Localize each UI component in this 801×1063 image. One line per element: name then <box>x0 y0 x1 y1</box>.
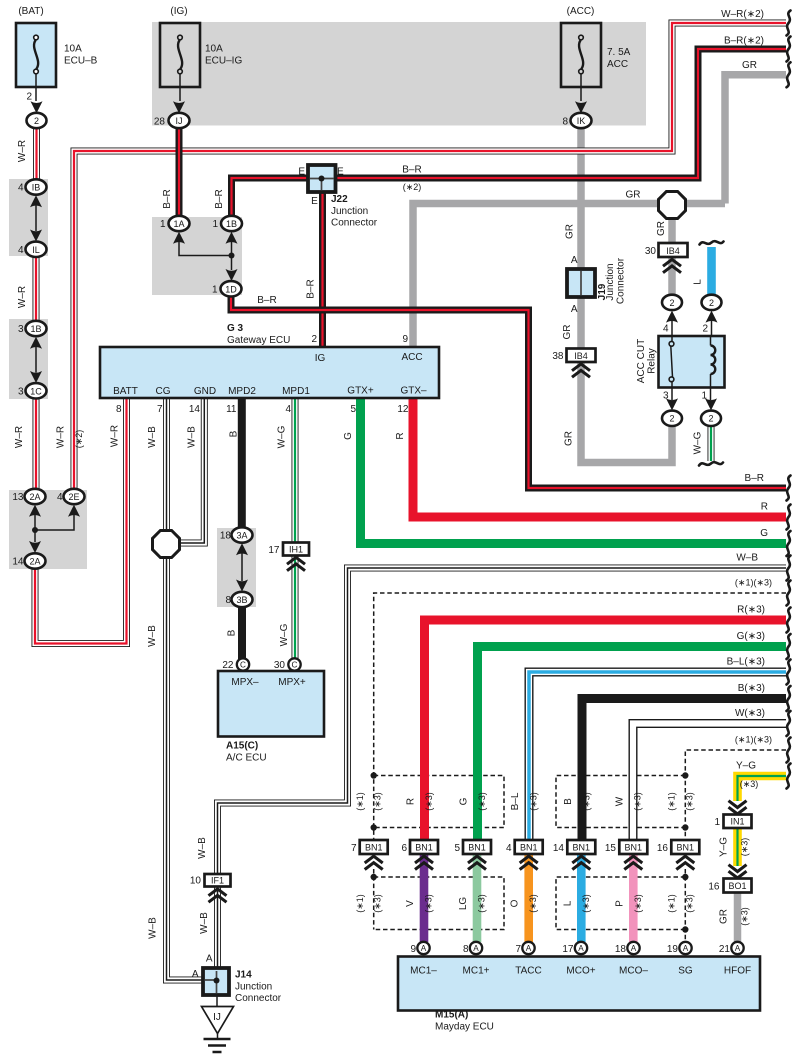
connector rect IF1 pin 10 <box>205 874 231 887</box>
wire V from 6-BN1 to MC1- <box>420 854 429 942</box>
connector oval 1B pin 1 <box>221 216 242 231</box>
svg-text:2: 2 <box>702 324 708 335</box>
svg-text:(IG): (IG) <box>170 6 187 17</box>
chevron under IH1 <box>287 557 305 570</box>
svg-text:A: A <box>192 969 199 980</box>
svg-text:G: G <box>459 797 470 805</box>
gateway ECU G3 box <box>100 347 439 398</box>
label C pin 30 <box>274 660 298 671</box>
break squiggle G(*3) bus <box>787 634 791 659</box>
svg-text:W–B: W–B <box>197 837 208 859</box>
arrow into oval IJ <box>173 101 185 113</box>
wire W-R 1C to 2A <box>33 398 40 490</box>
svg-text:1A: 1A <box>173 219 184 229</box>
svg-text:30: 30 <box>274 660 286 671</box>
svg-text:8: 8 <box>463 944 469 955</box>
break squiggles right edge top group <box>787 11 791 36</box>
svg-text:W–B: W–B <box>199 912 210 934</box>
arrow up into 3A <box>236 543 248 555</box>
junction connector J14 <box>203 968 229 995</box>
svg-text:3: 3 <box>663 391 669 402</box>
wire links 2A/2E join <box>35 515 74 543</box>
svg-text:Connector: Connector <box>235 993 282 1004</box>
dashed variant box lower-right <box>556 877 685 930</box>
wire GR from ACC fuse IK down through J19 to IB4 <box>577 128 585 349</box>
chevron under 30-IB4 <box>663 259 681 272</box>
arrow down into bottom oval 2 (pin 1) <box>705 398 717 410</box>
label 3A connector <box>220 531 248 542</box>
fuse (ACC) 7.5A <box>561 23 601 101</box>
connector rect BN1 pin 6 <box>410 840 438 854</box>
svg-text:A: A <box>631 944 637 953</box>
svg-text:B–R(∗2): B–R(∗2) <box>724 36 764 47</box>
svg-text:MPD1: MPD1 <box>282 386 310 397</box>
svg-text:(∗3): (∗3) <box>477 792 487 811</box>
chevron under 6-BN1 <box>415 856 433 869</box>
label 2A connector pin14 <box>12 557 40 568</box>
svg-text:19: 19 <box>667 944 679 955</box>
dashed wire (*1)(*3) horizontal bus <box>374 593 786 840</box>
chevron down above BO1 <box>729 865 747 878</box>
svg-text:BN1: BN1 <box>468 843 486 853</box>
svg-text:(∗3): (∗3) <box>685 894 695 913</box>
labels lower P column <box>614 894 643 913</box>
svg-text:MC1+: MC1+ <box>463 966 490 977</box>
svg-text:C: C <box>240 661 246 670</box>
junction dot dashed left col <box>371 824 377 830</box>
connector rect BN1 pin 16 <box>671 840 699 854</box>
svg-text:B–R: B–R <box>402 165 421 176</box>
svg-text:2: 2 <box>34 116 39 126</box>
svg-text:(ACC): (ACC) <box>567 6 595 17</box>
break squiggle B(*3) bus <box>787 686 791 711</box>
svg-text:W–B: W–B <box>148 917 159 939</box>
svg-text:HFOF: HFOF <box>724 966 751 977</box>
connector oval 1B pin 3 <box>26 321 47 336</box>
break squiggle W-G wire bottom <box>699 462 723 465</box>
wire GR top right with break <box>725 75 786 204</box>
svg-text:2A: 2A <box>29 557 40 567</box>
svg-text:G(∗3): G(∗3) <box>737 631 765 642</box>
connector rect IB4 pin 38 <box>567 349 596 363</box>
svg-text:G 3: G 3 <box>227 323 244 334</box>
svg-text:IF1: IF1 <box>211 876 224 886</box>
svg-text:W–G: W–G <box>279 623 290 646</box>
connector rect BO1 pin 16 <box>724 879 752 893</box>
svg-text:10: 10 <box>190 876 202 887</box>
gray panel behind 1A/1B/1D connectors <box>152 217 242 295</box>
svg-text:MCO–: MCO– <box>619 966 648 977</box>
svg-text:CG: CG <box>156 386 171 397</box>
svg-text:(∗3): (∗3) <box>740 838 750 857</box>
connector oval IJ pin 28 <box>169 113 190 128</box>
label 1B connector <box>212 219 237 230</box>
svg-text:A: A <box>578 944 584 953</box>
junction dot dashed right col <box>682 824 688 830</box>
svg-text:(∗3): (∗3) <box>373 792 383 811</box>
labels lower O column <box>510 894 539 913</box>
break squiggle B-L(*3) bus <box>787 660 791 685</box>
svg-text:4: 4 <box>18 245 24 256</box>
connector oval 2A pin 13 <box>25 489 46 504</box>
break squiggle R bus <box>787 505 791 530</box>
svg-text:A: A <box>735 944 741 953</box>
connector oval 2 below relay pin 3 <box>662 411 682 426</box>
wire W-G from relay oval 2 down to break <box>708 426 715 461</box>
svg-text:38: 38 <box>552 351 564 362</box>
octagon junction on GR <box>659 192 686 219</box>
fuse (BAT) 10A ECU-B <box>16 23 56 101</box>
connector oval 3B pin 8 <box>232 592 253 607</box>
wire B-L(*3) bus to 4-BN1 <box>529 672 786 840</box>
svg-text:V: V <box>405 900 416 907</box>
wire LG from 5-BN1 to MC1+ <box>473 854 482 942</box>
svg-text:BN1: BN1 <box>415 843 433 853</box>
labels BN1 row numbers and text <box>351 843 694 854</box>
svg-text:(∗3): (∗3) <box>373 894 383 913</box>
label gateway bottom pin names <box>113 386 427 398</box>
svg-text:1: 1 <box>701 391 707 402</box>
svg-text:6: 6 <box>401 843 407 854</box>
wire triangle to ground <box>217 1034 219 1040</box>
arrow into oval 2 <box>31 101 43 113</box>
svg-text:15: 15 <box>605 843 617 854</box>
svg-text:5: 5 <box>454 843 460 854</box>
svg-text:B–R: B–R <box>214 189 225 208</box>
svg-text:2: 2 <box>311 334 317 345</box>
arrow up into IB <box>30 195 42 207</box>
svg-text:3B: 3B <box>236 595 247 605</box>
label gateway bottom pin numbers <box>116 404 409 415</box>
svg-text:B: B <box>563 798 574 805</box>
chevron under 7-BN1 <box>365 856 383 869</box>
wire P from 15-BN1 to MCO- <box>629 854 638 942</box>
svg-text:8: 8 <box>225 595 231 606</box>
label G3 gateway ECU <box>227 323 290 346</box>
wire W-B from gateway CG pin down through octagon to J14 <box>167 398 204 980</box>
wire GR from oval 2 down-left-up to 38-IB4 <box>581 363 672 463</box>
connector oval 2 below relay pin 1 <box>701 411 721 426</box>
label oval 2 texts right section <box>669 298 714 424</box>
connector oval IL pin 4 <box>26 242 47 257</box>
wire L from 14-BN1 to MCO+ <box>577 854 586 942</box>
svg-text:Connector: Connector <box>616 257 627 304</box>
break squiggle dashed bus 2 <box>787 738 791 763</box>
svg-text:ACC: ACC <box>401 352 422 363</box>
chevron under 38-IB4 <box>572 364 590 377</box>
connector oval 2E pin 4 <box>64 489 85 504</box>
svg-text:E: E <box>311 196 318 207</box>
wire B from gateway MPD2 pin to 3A <box>238 398 246 528</box>
svg-text:7: 7 <box>515 944 521 955</box>
wire Y-G from IN1 to BO1 <box>733 828 742 866</box>
label 1C connector <box>18 386 42 397</box>
wire W-R from (BAT) fuse to IB <box>33 128 40 180</box>
svg-text:BN1: BN1 <box>677 843 695 853</box>
svg-text:BN1: BN1 <box>520 843 538 853</box>
wire B from 3B down to A/C ECU MPX- <box>238 607 246 659</box>
svg-text:B(∗3): B(∗3) <box>738 683 765 694</box>
chevron under 4-BN1 <box>520 856 538 869</box>
ground symbol <box>204 1039 231 1052</box>
svg-text:IB: IB <box>32 183 41 193</box>
labels lower dashed box left column (*1)(*3) <box>355 894 383 913</box>
svg-text:16: 16 <box>708 882 720 893</box>
wire B-R(*2) from J22 right to top-right break <box>335 49 786 178</box>
svg-text:GR: GR <box>719 909 730 924</box>
junction dot dashed left col <box>371 772 377 778</box>
connector oval 3A pin 18 <box>232 527 253 542</box>
label J14 A pins <box>192 954 213 981</box>
connector circle A pin 9 MC1- <box>417 942 429 954</box>
svg-text:W: W <box>615 796 626 806</box>
svg-text:IL: IL <box>32 245 40 255</box>
label (ACC) fuse <box>562 6 630 127</box>
break squiggle G bus <box>787 531 791 556</box>
svg-text:R(∗3): R(∗3) <box>737 605 765 616</box>
gray panel behind IG and ACC fuses <box>152 22 646 126</box>
junction dot dashed right col <box>682 772 688 778</box>
svg-text:1: 1 <box>212 284 218 295</box>
svg-text:4: 4 <box>663 324 669 335</box>
label 2A connector pin13 <box>12 492 40 503</box>
label MPX pins <box>231 677 306 688</box>
svg-text:5: 5 <box>350 404 356 415</box>
svg-text:W–B: W–B <box>147 426 158 448</box>
ground triangle IJ <box>202 1007 234 1034</box>
svg-text:R: R <box>406 798 417 805</box>
svg-text:R: R <box>395 432 406 439</box>
labels lower L column <box>562 894 591 913</box>
svg-text:2: 2 <box>669 414 674 424</box>
svg-text:2: 2 <box>669 298 674 308</box>
wire pin4 to relay <box>671 321 673 338</box>
connector rect IN1 pin 1 <box>724 815 752 829</box>
connector oval 2 above relay coil pin 2 <box>702 295 722 310</box>
break squiggle L wire top <box>700 241 724 244</box>
svg-text:A: A <box>206 954 213 965</box>
label ACC CUT relay <box>636 339 658 383</box>
connector rect BN1 pin 7 <box>360 840 388 854</box>
labels M15 pin names <box>410 966 751 977</box>
svg-text:3: 3 <box>18 386 24 397</box>
svg-text:IK: IK <box>577 116 586 126</box>
wire GR octagon down to 30-IB4 and oval 2 <box>668 215 676 296</box>
arrow into oval IK <box>575 101 587 113</box>
svg-text:GR: GR <box>562 325 573 340</box>
labels M15 pin numbers and A circles <box>410 944 740 955</box>
svg-text:O: O <box>510 899 521 907</box>
svg-text:BN1: BN1 <box>365 843 383 853</box>
svg-text:W–R: W–R <box>110 425 121 447</box>
svg-text:Junction: Junction <box>331 206 368 217</box>
svg-text:17: 17 <box>268 545 280 556</box>
labels lower dashed box right column (*1)(*3) <box>667 894 695 913</box>
svg-text:(∗3): (∗3) <box>740 779 759 789</box>
chevron under 14-BN1 <box>572 856 590 869</box>
svg-text:G: G <box>760 528 768 539</box>
svg-text:A: A <box>421 944 427 953</box>
svg-text:W–G: W–G <box>693 431 704 454</box>
label A15(C) A/C ECU <box>226 741 267 764</box>
wire Y-G bus from break to IN1 <box>738 776 787 801</box>
wire J14 to IJ ground triangle <box>216 995 218 1007</box>
connector rect IH1 pin 17 <box>283 543 309 556</box>
svg-text:(∗1)(∗3): (∗1)(∗3) <box>735 578 772 588</box>
svg-text:Mayday ECU: Mayday ECU <box>435 1022 494 1033</box>
svg-text:B: B <box>229 430 240 437</box>
svg-text:2: 2 <box>709 298 714 308</box>
svg-text:W–R: W–R <box>17 286 28 308</box>
label M15(A) mayday ECU <box>435 1010 494 1033</box>
svg-text:17: 17 <box>562 944 574 955</box>
svg-text:2A: 2A <box>29 492 40 502</box>
wire B-R from 1B up and right through J22 <box>232 178 309 216</box>
svg-text:GR: GR <box>564 431 575 446</box>
svg-text:(∗3): (∗3) <box>633 894 643 913</box>
dashed variant box lower-left <box>374 877 504 930</box>
svg-text:18: 18 <box>615 944 627 955</box>
arrow down into 14-2A <box>29 541 41 553</box>
svg-text:A: A <box>526 944 532 953</box>
svg-text:B–R: B–R <box>257 295 276 306</box>
svg-text:9: 9 <box>402 334 408 345</box>
svg-text:M15(A): M15(A) <box>435 1010 468 1021</box>
label (BAT) fuse <box>18 6 97 126</box>
svg-text:(∗3): (∗3) <box>581 894 591 913</box>
labels lower LG column <box>458 894 487 913</box>
svg-text:W(∗3): W(∗3) <box>735 708 765 719</box>
svg-text:GND: GND <box>194 386 216 397</box>
connector oval 2 (BAT) <box>27 113 47 128</box>
arrow down into 1D <box>226 269 238 281</box>
svg-text:(∗3): (∗3) <box>582 792 592 811</box>
connector rect BN1 pin 15 <box>619 840 647 854</box>
dashed variant box upper-left <box>374 776 504 828</box>
labels upper dashed box left column (*1)(*3) <box>355 792 383 811</box>
svg-text:L: L <box>562 900 573 906</box>
wire O from 4-BN1 to TACC <box>524 854 533 942</box>
octagon junction on W-B CG wire <box>153 531 180 558</box>
wire W-B bus from break left and down to IF1 <box>218 568 787 874</box>
svg-text:ECU–IG: ECU–IG <box>205 56 242 67</box>
svg-text:GR: GR <box>565 224 576 239</box>
arrow up into 2A <box>29 505 41 517</box>
svg-text:1D: 1D <box>225 284 237 294</box>
svg-text:8: 8 <box>116 404 122 415</box>
label J22 junction connector <box>298 167 377 229</box>
svg-text:28: 28 <box>154 116 166 127</box>
svg-text:W–R(∗2): W–R(∗2) <box>721 9 764 20</box>
break squiggle B-R bus <box>787 476 791 501</box>
svg-text:30: 30 <box>645 246 657 257</box>
svg-text:2: 2 <box>26 92 32 103</box>
junction dot 2A/2E <box>32 527 38 533</box>
svg-text:7: 7 <box>351 843 357 854</box>
connector oval IB pin 4 <box>26 179 47 194</box>
svg-text:Junction: Junction <box>235 982 272 993</box>
label 1B connector left <box>18 324 42 335</box>
connector oval 2 above relay pin 4 <box>662 295 682 310</box>
junction dot dashed left col <box>371 874 377 880</box>
junction dot 1A/1B <box>229 253 235 259</box>
chevron down above IN1 <box>729 801 747 814</box>
svg-text:GTX–: GTX– <box>400 386 427 397</box>
wire W-G from gateway MPD1 pin down to IH1 <box>292 398 299 543</box>
wire GR from BO1 to HFOF pin <box>734 891 742 942</box>
svg-text:IB4: IB4 <box>666 246 680 256</box>
label IN1 connector <box>714 817 744 828</box>
svg-text:BO1: BO1 <box>728 881 746 891</box>
wire W-B from IF1 down to J14 <box>214 886 221 968</box>
svg-text:BN1: BN1 <box>573 843 591 853</box>
svg-text:LG: LG <box>458 897 469 911</box>
wire W-G from IH1 down to A/C ECU MPX+ <box>292 555 299 659</box>
svg-text:12: 12 <box>397 404 409 415</box>
svg-text:2E: 2E <box>68 492 79 502</box>
svg-text:Relay: Relay <box>647 348 658 374</box>
break squiggle Y-G bus <box>787 764 791 789</box>
svg-text:1B: 1B <box>226 219 237 229</box>
wire B(*3) bus to 14-BN1 <box>582 699 786 841</box>
chevron under 16-BN1 <box>676 856 694 869</box>
svg-text:3: 3 <box>18 324 24 335</box>
label 3B connector <box>225 595 247 606</box>
svg-text:(∗3): (∗3) <box>633 792 643 811</box>
break squiggle W(*3) bus <box>787 711 791 736</box>
labels upper W column <box>615 792 643 811</box>
wire R(*3) bus to 6-BN1 <box>425 620 787 840</box>
arrow up into oval 2 <box>666 311 678 323</box>
arrow up into coil oval 2 <box>706 311 718 323</box>
wire G from gateway GTX+ down right to break <box>361 398 787 544</box>
svg-text:B–R: B–R <box>306 279 317 298</box>
svg-text:(∗3): (∗3) <box>477 894 487 913</box>
svg-text:4: 4 <box>18 183 24 194</box>
labels upper B-L column <box>510 792 539 811</box>
svg-text:GTX+: GTX+ <box>347 386 374 397</box>
connector circle A pin 17 MCO+ <box>575 942 587 954</box>
break squiggle W-B bus <box>787 556 791 581</box>
labels upper dashed box right column (*1)(*3) <box>667 792 695 811</box>
svg-text:10A: 10A <box>205 44 223 55</box>
connector circle C pin 22 <box>237 658 249 670</box>
label IH1 connector <box>268 545 303 556</box>
svg-text:W–B: W–B <box>147 625 158 647</box>
label wire Y-G between IN1 and BO1 <box>719 837 750 857</box>
connector circle A pin 8 MC1+ <box>470 942 482 954</box>
svg-text:GR: GR <box>626 190 641 201</box>
svg-text:(∗1): (∗1) <box>355 792 365 811</box>
svg-text:8: 8 <box>562 116 568 127</box>
svg-text:B: B <box>227 629 238 636</box>
svg-text:21: 21 <box>719 944 731 955</box>
svg-text:1: 1 <box>160 219 166 230</box>
junction dot dashed right col <box>682 874 688 880</box>
label wire B-R(*2) to J22 <box>402 165 421 193</box>
svg-text:W–G: W–G <box>277 425 288 448</box>
dashed wire 7-BN1 lower segment <box>373 869 375 930</box>
connector rect BN1 pin 5 <box>463 840 491 854</box>
connector oval 1C pin 3 <box>26 383 47 398</box>
label IL connector <box>18 245 40 256</box>
junction dot dashed right col <box>682 926 688 932</box>
svg-text:1: 1 <box>714 817 720 828</box>
arrow up into 2E <box>68 505 80 517</box>
svg-text:4: 4 <box>285 404 291 415</box>
label 2E connector pin4 <box>57 492 80 503</box>
connector circle C pin 30 <box>288 658 300 670</box>
